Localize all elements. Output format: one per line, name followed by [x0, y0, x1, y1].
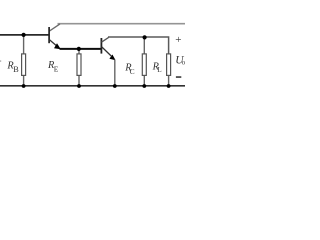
svg-text:o: o: [182, 60, 185, 67]
svg-text:L: L: [157, 66, 161, 74]
svg-text:C: C: [130, 67, 135, 76]
svg-text:+: +: [175, 34, 181, 46]
svg-text:E: E: [54, 64, 59, 73]
svg-text:B: B: [13, 65, 19, 74]
